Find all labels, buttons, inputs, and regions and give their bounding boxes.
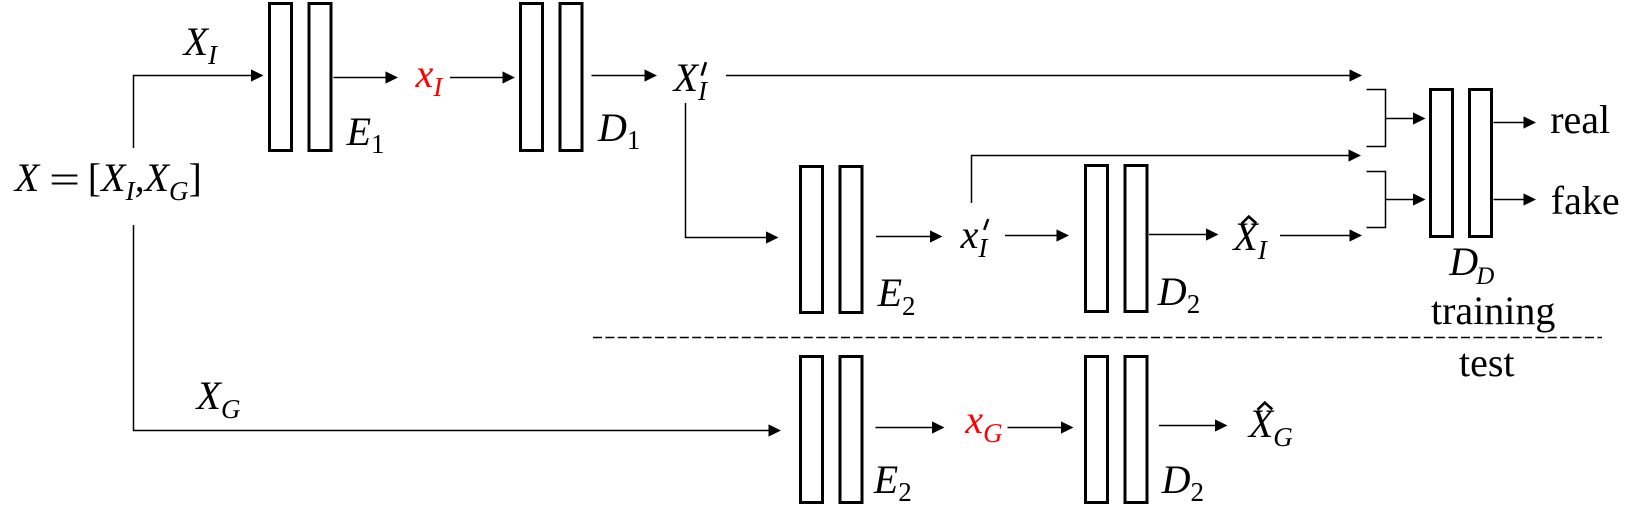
- wire XI' down to top E2: [686, 103, 767, 238]
- bracket joining real inputs: [1367, 90, 1386, 147]
- node label X_I': [674, 58, 707, 105]
- caption test: [1459, 343, 1515, 383]
- label E1: [347, 112, 385, 152]
- decoder block D1: [521, 4, 583, 151]
- node label Xhat_I: [1233, 217, 1266, 264]
- node label Xhat_G: [1249, 404, 1293, 451]
- label DD: [1449, 242, 1494, 289]
- wire E1 to xI: [334, 77, 386, 79]
- dashed separator training/test: [593, 337, 1602, 339]
- wire xI to D1: [450, 77, 503, 79]
- discriminator block DD: [1431, 90, 1492, 237]
- decoder block D2 (top): [1086, 166, 1148, 312]
- wire bracket2 to DD: [1386, 199, 1414, 201]
- wire xG to bottom D2: [1008, 427, 1062, 429]
- node label x_G (red latent): [965, 400, 1002, 447]
- node label X_I (top input): [184, 22, 217, 69]
- wire X down to bottom E2 with arrow: [134, 225, 769, 431]
- wire X to E1 with arrow: [134, 76, 252, 149]
- node label X = [X_I, X_G]: [15, 158, 202, 205]
- wire E2 to xI': [876, 236, 930, 238]
- label E2 (top): [878, 273, 916, 313]
- wire D2 to XhatI: [1149, 234, 1206, 236]
- wire xI' up to discriminator: [972, 156, 1349, 204]
- wire xI' to D2: [1005, 235, 1057, 237]
- wire bracket1 to DD: [1386, 118, 1414, 120]
- caption training: [1431, 291, 1555, 331]
- decoder block D2 (bottom): [1086, 357, 1148, 503]
- encoder block E1: [270, 4, 332, 151]
- node label x_I': [961, 215, 988, 262]
- output label real: [1550, 100, 1610, 140]
- label E2 (bottom): [874, 460, 912, 500]
- node label X_G (bottom input): [197, 376, 241, 423]
- wire DD to fake: [1494, 199, 1524, 201]
- bracket joining fake inputs: [1367, 172, 1386, 228]
- node label x_I (red latent): [416, 54, 443, 101]
- wire XI' to discriminator (long top line): [726, 75, 1350, 77]
- wire XhatI to discriminator: [1280, 235, 1350, 237]
- wire bottom E2 to xG: [876, 427, 933, 429]
- label D2 (bottom): [1162, 460, 1204, 500]
- encoder block E2 (top): [801, 167, 863, 313]
- output label fake: [1551, 181, 1620, 221]
- wire D1 to XI': [592, 75, 645, 77]
- wire bottom D2 to XhatG: [1159, 425, 1215, 427]
- wire DD to real: [1494, 122, 1524, 124]
- encoder block E2 (bottom): [801, 357, 863, 503]
- label D1: [598, 108, 640, 148]
- label D2 (top): [1158, 272, 1200, 312]
